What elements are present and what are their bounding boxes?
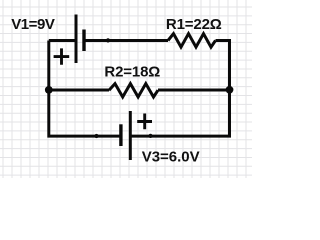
wire middle: left junction to R2: [49, 89, 109, 92]
wire joint dot bottom-right: [148, 134, 152, 138]
wire joint dot top: [106, 38, 110, 42]
resistor R1: [168, 34, 216, 47]
V1 polarity plus sign: [54, 48, 70, 64]
V3 short plate: [119, 124, 122, 146]
wire V1 short plate to R1: [84, 39, 168, 42]
wire right junction down to bottom-right corner then left to V3 long plate: [130, 90, 229, 136]
V1 long plate: [75, 15, 78, 64]
svg-text:R2=18Ω: R2=18Ω: [104, 63, 160, 80]
wire left junction up to top-left corner: [47, 41, 50, 90]
V3 long plate: [129, 111, 132, 160]
wire joint dot bottom-left: [94, 134, 98, 138]
V3 polarity plus sign: [137, 114, 152, 130]
wire R1 to top-right corner and down to junction: [216, 41, 230, 90]
junction node left: [45, 86, 53, 94]
battery V3: [121, 111, 130, 160]
wire R2 to right junction: [158, 89, 230, 92]
battery V1: [76, 15, 84, 64]
V1 short plate: [82, 30, 85, 52]
svg-text:V3=6.0V: V3=6.0V: [142, 149, 200, 166]
resistor R2: [109, 84, 158, 97]
wire V3 short plate to bottom-left corner and up to left junction: [49, 90, 121, 136]
wire top-left from corner to V1 long plate: [49, 39, 76, 42]
svg-text:V1=9V: V1=9V: [11, 16, 55, 33]
junction node right: [226, 86, 234, 94]
svg-text:R1=22Ω: R1=22Ω: [166, 16, 222, 33]
